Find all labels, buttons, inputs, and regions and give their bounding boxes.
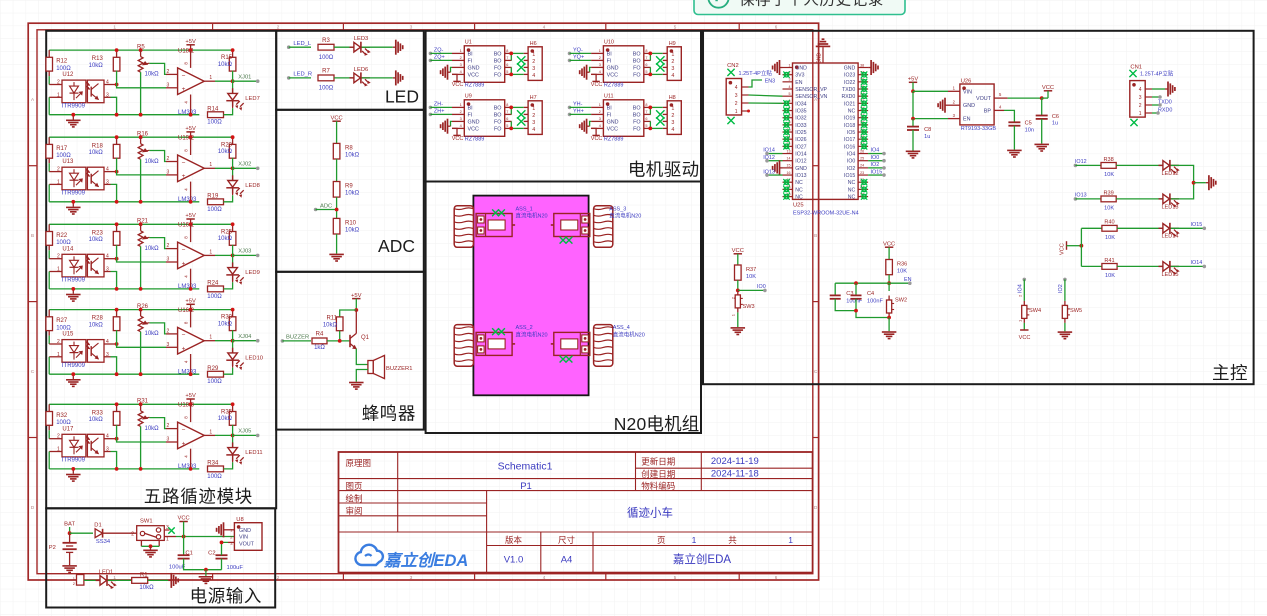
svg-text:IO18: IO18 — [844, 123, 855, 129]
svg-text:LED_L: LED_L — [293, 41, 312, 47]
svg-text:ESP32-WROOM-32UE-N4: ESP32-WROOM-32UE-N4 — [793, 211, 859, 217]
svg-text:C1: C1 — [185, 550, 192, 556]
potentiometer R31 — [139, 402, 143, 406]
svg-text:5: 5 — [506, 124, 508, 128]
wire +5V to U26 VIN — [913, 90, 948, 92]
no-connect X SW1 pin3 — [164, 529, 169, 531]
svg-text:IO22: IO22 — [844, 80, 855, 86]
wire D1 to SW1 — [103, 532, 137, 534]
wire opto pin4 — [104, 84, 117, 86]
module box 电源输入 — [46, 508, 275, 607]
ground U25 top GND net — [822, 38, 825, 40]
svg-text:LED11: LED11 — [245, 450, 262, 456]
svg-text:R41: R41 — [1104, 258, 1114, 264]
svg-text:3: 3 — [532, 66, 535, 72]
capacitor C6 — [1041, 98, 1043, 115]
svg-text:R24: R24 — [207, 281, 219, 287]
svg-text:R10: R10 — [345, 220, 357, 226]
svg-text:−: − — [182, 427, 186, 434]
svg-text:蜂鸣器: 蜂鸣器 — [362, 404, 416, 424]
module box LED — [276, 31, 424, 110]
wire CN2 pin3 to U25 SENSOR_VP — [749, 95, 783, 96]
svg-text:IO4: IO4 — [847, 152, 855, 158]
svg-text:6: 6 — [775, 575, 778, 580]
transistor Q1 — [349, 335, 351, 347]
svg-text:NC: NC — [795, 180, 803, 186]
resistor R17 — [48, 137, 50, 144]
svg-text:R9: R9 — [345, 184, 353, 190]
svg-text:2: 2 — [167, 156, 170, 162]
svg-text:直流电机N20: 直流电机N20 — [609, 212, 641, 220]
svg-text:IO14: IO14 — [795, 152, 806, 158]
resistor R4 — [312, 338, 327, 344]
svg-text:YQ-: YQ- — [573, 48, 583, 54]
net flags IO4 IO0 IO2 IO15 U25 — [868, 153, 884, 155]
svg-text:7: 7 — [506, 110, 508, 114]
svg-text:3: 3 — [671, 66, 674, 72]
svg-text:NC: NC — [848, 187, 856, 193]
svg-text:8: 8 — [645, 49, 647, 53]
VCC flag U11 — [591, 128, 596, 135]
svg-text:YH-: YH- — [573, 102, 583, 108]
svg-text:SENSOR_VN: SENSOR_VN — [795, 94, 827, 100]
svg-text:GND: GND — [607, 120, 619, 126]
wire opto pin1 — [49, 356, 62, 358]
svg-text:1u: 1u — [924, 134, 930, 140]
svg-text:C5: C5 — [1025, 121, 1032, 127]
svg-text:R17: R17 — [56, 146, 68, 152]
svg-text:R4: R4 — [316, 332, 324, 338]
svg-text:BUZZER: BUZZER — [286, 335, 309, 341]
svg-text:XJ05: XJ05 — [238, 429, 251, 435]
svg-text:FI: FI — [468, 59, 473, 65]
svg-text:R33: R33 — [92, 410, 104, 416]
svg-text:2: 2 — [460, 110, 462, 114]
svg-text:U9: U9 — [465, 94, 472, 100]
op-amp U18.3 — [166, 428, 178, 430]
wire pot wiper to op-amp inverting input — [149, 63, 166, 74]
no-connect X ASS_2 — [492, 328, 499, 335]
wire pot wiper to op-amp inverting input — [149, 151, 166, 162]
svg-text:ZH-: ZH- — [434, 102, 443, 108]
wire SW5 to ground — [1064, 323, 1066, 331]
resistor R10 — [333, 218, 340, 234]
svg-text:GND: GND — [239, 528, 251, 534]
svg-text:U25: U25 — [793, 203, 804, 209]
svg-text:R25: R25 — [221, 229, 233, 235]
svg-text:FO: FO — [494, 120, 502, 126]
wire U8 VOUT stub — [228, 541, 234, 543]
ground row XJ01 — [72, 115, 74, 120]
svg-text:3: 3 — [460, 63, 462, 67]
wire Q1 collector to +5V — [355, 310, 357, 333]
svg-text:10kΩ: 10kΩ — [218, 149, 233, 155]
svg-text:IO12: IO12 — [763, 155, 775, 161]
ground U25 pin15 GND — [773, 160, 783, 175]
svg-text:7: 7 — [645, 110, 647, 114]
svg-text:RZ7889: RZ7889 — [465, 137, 485, 143]
op-amp power pins — [190, 404, 192, 422]
potentiometer R5 — [139, 48, 143, 52]
wire R10 to ground — [336, 234, 338, 254]
svg-text:U1: U1 — [465, 40, 472, 46]
net flag IO14 — [1171, 265, 1205, 267]
svg-text:6: 6 — [645, 117, 647, 121]
ground C6 — [1034, 144, 1049, 152]
svg-text:1: 1 — [671, 106, 674, 112]
wire R9 to ADC node — [336, 197, 338, 218]
svg-text:IO17: IO17 — [844, 137, 855, 143]
net flag IO2 SW5 — [1063, 278, 1067, 282]
svg-text:ZQ+: ZQ+ — [434, 55, 445, 61]
sheet column ticks top — [212, 23, 214, 30]
svg-text:IO13: IO13 — [763, 169, 775, 175]
svg-text:4: 4 — [735, 85, 738, 91]
wheel ASS_4 — [594, 325, 613, 367]
svg-text:U11: U11 — [604, 94, 614, 100]
svg-text:主控: 主控 — [1212, 363, 1248, 383]
svg-text:6: 6 — [645, 63, 647, 67]
toast notification bar — [694, 0, 905, 15]
svg-text:4: 4 — [460, 70, 462, 74]
svg-text:26: 26 — [860, 149, 864, 153]
op-amp power pins — [190, 137, 192, 155]
svg-text:10kΩ: 10kΩ — [145, 331, 160, 337]
svg-text:C2: C2 — [208, 550, 215, 556]
svg-text:RXD0: RXD0 — [1158, 108, 1172, 114]
svg-text:2: 2 — [671, 113, 674, 119]
svg-text:Schematic1: Schematic1 — [498, 461, 553, 473]
svg-text:VCC: VCC — [591, 82, 603, 88]
svg-text:VCC: VCC — [452, 136, 464, 142]
net flag YH+ — [568, 113, 572, 117]
motor ASS_1 — [476, 214, 512, 237]
svg-text:10kΩ: 10kΩ — [139, 585, 154, 591]
net flag XJ02 — [233, 167, 258, 169]
svg-text:FI: FI — [607, 59, 612, 65]
wires U11 to H8 — [649, 107, 651, 114]
svg-text:电源输入: 电源输入 — [190, 586, 262, 606]
svg-text:R8: R8 — [345, 145, 353, 151]
LED LED15 — [1159, 265, 1163, 267]
svg-text:U12: U12 — [62, 72, 74, 78]
svg-text:ITR9909: ITR9909 — [62, 363, 86, 369]
svg-text:LED8: LED8 — [245, 183, 260, 189]
svg-text:NC: NC — [795, 195, 803, 201]
op-amp output wire — [204, 80, 215, 82]
resistor R19 — [208, 199, 224, 205]
svg-text:3: 3 — [167, 169, 170, 175]
wire opto pin2 — [49, 258, 62, 260]
resistor R7 — [318, 75, 334, 81]
svg-text:版本: 版本 — [505, 535, 523, 545]
no-connect X ASS_3 — [560, 237, 567, 244]
net flag YQ+ — [568, 59, 572, 63]
svg-text:IO2: IO2 — [1058, 284, 1064, 293]
svg-text:GND: GND — [795, 66, 807, 72]
svg-text:嘉立创EDA: 嘉立创EDA — [673, 552, 731, 566]
svg-text:23: 23 — [860, 171, 864, 175]
net flag LED_R — [287, 76, 291, 80]
title block outer frame — [339, 452, 813, 573]
svg-text:1: 1 — [599, 103, 601, 107]
svg-text:10K: 10K — [1104, 206, 1114, 212]
svg-text:V1.0: V1.0 — [504, 555, 524, 566]
svg-text:XJ01: XJ01 — [238, 74, 251, 80]
svg-text:10kΩ: 10kΩ — [323, 323, 338, 329]
svg-text:2: 2 — [167, 328, 170, 334]
ground C8 — [906, 151, 921, 159]
svg-text:1: 1 — [460, 103, 462, 107]
svg-text:P2: P2 — [49, 545, 56, 551]
svg-text:电机驱动: 电机驱动 — [628, 160, 700, 180]
svg-text:10kΩ: 10kΩ — [345, 227, 360, 233]
svg-text:C4: C4 — [867, 291, 874, 297]
svg-text:ASS_4: ASS_4 — [613, 325, 630, 331]
svg-text:−: − — [182, 332, 186, 339]
ground LED12 LED13 — [1206, 175, 1216, 190]
svg-text:IO12: IO12 — [795, 159, 806, 165]
svg-text:LED12: LED12 — [1161, 171, 1178, 177]
svg-text:IO19: IO19 — [844, 116, 855, 122]
svg-text:SW1: SW1 — [140, 519, 153, 525]
svg-text:IO14: IO14 — [763, 148, 775, 154]
wire LED12 LED13 to ground — [1171, 165, 1194, 199]
car body plate — [473, 196, 588, 396]
net flag ZQ+ — [429, 59, 433, 63]
wire SW3 to ground — [737, 312, 739, 327]
svg-text:创建日期: 创建日期 — [641, 469, 675, 479]
no-connect X H9 pins — [656, 56, 664, 64]
svg-text:XJ03: XJ03 — [238, 249, 251, 255]
svg-text:IO0: IO0 — [847, 159, 855, 165]
wire op-amp plus input — [117, 172, 166, 175]
svg-text:YQ+: YQ+ — [573, 55, 584, 61]
motor ASS_3 — [554, 214, 590, 237]
svg-text:R37: R37 — [746, 267, 756, 273]
svg-text:FI: FI — [468, 113, 473, 119]
wire LED1 to R1 — [108, 579, 132, 581]
wire R36 to EN node — [888, 275, 890, 284]
net flag XJ03 — [233, 254, 258, 256]
svg-text:XJ02: XJ02 — [238, 161, 251, 167]
sheet outer border — [28, 23, 818, 580]
svg-text:U16.2: U16.2 — [178, 308, 195, 314]
op-amp U16.2 — [166, 333, 178, 335]
svg-text:LED9: LED9 — [245, 270, 260, 276]
svg-text:R29: R29 — [207, 366, 219, 372]
svg-text:10kΩ: 10kΩ — [89, 63, 104, 69]
svg-text:25: 25 — [860, 157, 864, 161]
svg-text:10kΩ: 10kΩ — [218, 62, 233, 68]
svg-text:IO27: IO27 — [795, 144, 806, 150]
svg-text:1: 1 — [1139, 111, 1142, 117]
no-connect X U25 left unused pins — [784, 72, 789, 77]
wire pot wiper to op-amp inverting input — [149, 418, 166, 429]
resistor R29 — [208, 371, 224, 377]
svg-text:100Ω: 100Ω — [207, 379, 222, 385]
svg-text:100Ω: 100Ω — [207, 474, 222, 480]
net flag BUZZER — [281, 339, 285, 343]
svg-text:3: 3 — [167, 342, 170, 348]
op-amp power pins — [190, 50, 192, 68]
svg-text:SW4: SW4 — [1029, 308, 1041, 314]
module box 主控 — [703, 31, 1254, 384]
svg-text:2: 2 — [131, 532, 134, 538]
svg-text:BI: BI — [607, 106, 612, 112]
wire opto pin4 — [104, 438, 117, 440]
svg-text:C8: C8 — [924, 127, 931, 133]
wire VCC node to C1 — [183, 537, 185, 556]
svg-text:直流电机N20: 直流电机N20 — [516, 331, 548, 339]
svg-text:直流电机N20: 直流电机N20 — [613, 331, 645, 339]
net flag IO14 U25 — [767, 153, 783, 155]
resistor R11 — [336, 317, 343, 331]
svg-text:1kΩ: 1kΩ — [314, 345, 325, 351]
svg-text:IO13: IO13 — [795, 173, 806, 179]
svg-text:BI: BI — [607, 52, 612, 58]
wire opto pin4 — [104, 171, 117, 173]
wire R1 to ground — [148, 579, 169, 581]
op-amp output wire — [204, 254, 215, 256]
ground C5 — [1007, 150, 1022, 158]
svg-text:IO2: IO2 — [847, 166, 855, 172]
net flag YQ- — [568, 52, 572, 56]
svg-text:10kΩ: 10kΩ — [89, 322, 104, 328]
wire opto pin3 — [104, 271, 111, 273]
wire C2 bottom to ground rail — [221, 559, 223, 570]
svg-text:R26: R26 — [137, 304, 149, 310]
module box 五路循迹模块 — [46, 31, 276, 509]
ground row XJ05 — [72, 469, 74, 474]
svg-text:R31: R31 — [137, 399, 149, 405]
svg-text:4: 4 — [543, 575, 546, 580]
sheet column ticks bottom — [212, 574, 214, 580]
op-amp U18.1 — [166, 73, 178, 75]
svg-text:NC: NC — [848, 180, 856, 186]
svg-text:10kΩ: 10kΩ — [345, 152, 360, 158]
svg-text:1: 1 — [789, 63, 791, 67]
svg-text:IO35: IO35 — [795, 109, 806, 115]
wire R38 to LED12 — [1116, 164, 1163, 166]
svg-text:Q1: Q1 — [361, 335, 370, 341]
svg-text:GND: GND — [963, 103, 975, 109]
wires U10 to H9 — [649, 53, 651, 60]
svg-text:RZ7889: RZ7889 — [465, 83, 485, 89]
sheet row ticks right — [813, 165, 819, 167]
svg-text:−: − — [182, 160, 186, 167]
resistor R38 — [1101, 163, 1116, 169]
wheel ASS_1 — [454, 206, 473, 248]
wire U26 BP to C5 — [994, 109, 1004, 111]
wire LED3 to ground — [362, 46, 393, 48]
svg-text:6: 6 — [506, 63, 508, 67]
svg-text:3: 3 — [532, 120, 535, 126]
VCC flag U10 — [591, 74, 596, 81]
net flag EN — [889, 282, 910, 284]
svg-text:ASS_1: ASS_1 — [516, 206, 533, 212]
svg-text:EN3: EN3 — [765, 79, 776, 85]
wire +5V to U26 EN — [913, 91, 948, 118]
potentiometer R26 — [139, 308, 143, 312]
svg-text:4: 4 — [789, 85, 791, 89]
svg-text:VCC: VCC — [468, 127, 479, 133]
ground row XJ02 — [72, 202, 74, 207]
resistor R33 — [116, 404, 118, 411]
svg-text:7: 7 — [645, 56, 647, 60]
svg-text:EN: EN — [904, 277, 912, 283]
svg-text:10K: 10K — [897, 268, 907, 274]
svg-text:R3: R3 — [322, 38, 330, 44]
svg-text:4: 4 — [671, 73, 674, 79]
svg-text:10n: 10n — [1025, 127, 1034, 133]
svg-text:IO5: IO5 — [847, 130, 855, 136]
sheet row ticks left — [28, 165, 37, 167]
svg-text:LM393: LM393 — [178, 110, 197, 116]
motor ASS_2 — [476, 332, 512, 355]
net flag IO12 U25 — [767, 160, 783, 162]
svg-text:5: 5 — [506, 70, 508, 74]
svg-text:LM393: LM393 — [178, 464, 197, 470]
svg-text:FO: FO — [494, 127, 502, 133]
wire opto pin3 — [104, 96, 111, 98]
svg-text:LED13: LED13 — [1161, 204, 1178, 210]
svg-text:5: 5 — [789, 92, 791, 96]
svg-text:LED10: LED10 — [245, 355, 263, 361]
svg-text:U10: U10 — [604, 40, 614, 46]
svg-text:N20电机组: N20电机组 — [614, 414, 700, 434]
svg-text:NC: NC — [848, 195, 856, 201]
wire R7 to LED6 — [334, 77, 354, 79]
resistor R8 — [333, 143, 340, 159]
svg-text:CN2: CN2 — [727, 63, 739, 69]
wire pot wiper to op-amp inverting input — [149, 238, 166, 249]
wire R3 to LED3 — [334, 46, 354, 48]
svg-text:GND: GND — [607, 66, 619, 72]
svg-text:GND: GND — [844, 66, 856, 72]
LED LED7 — [232, 81, 234, 93]
svg-text:2: 2 — [599, 56, 601, 60]
svg-text:1: 1 — [532, 106, 535, 112]
svg-text:图页: 图页 — [346, 481, 363, 491]
svg-text:R7: R7 — [322, 69, 330, 75]
ground row XJ03 — [72, 289, 74, 294]
svg-text:10kΩ: 10kΩ — [89, 150, 104, 156]
svg-text:IO0: IO0 — [871, 155, 880, 161]
wire bottom rail row XJ04 — [49, 373, 199, 375]
svg-text:2: 2 — [532, 113, 535, 119]
resistor R32 — [48, 404, 50, 411]
svg-text:R20: R20 — [221, 142, 233, 148]
svg-text:XJ04: XJ04 — [238, 334, 252, 340]
resistor R23 — [116, 224, 118, 231]
resistor R30 — [232, 310, 234, 317]
wire opto pin3 — [104, 451, 111, 453]
svg-text:更新日期: 更新日期 — [641, 457, 675, 467]
resistor R39 — [1101, 196, 1116, 202]
svg-text:U16.1: U16.1 — [178, 223, 195, 229]
resistor R1 — [132, 578, 148, 584]
wire +5V to R11 — [340, 310, 357, 317]
svg-text:IO0: IO0 — [757, 284, 766, 290]
svg-text:保存于个人历史记录: 保存于个人历史记录 — [739, 0, 884, 9]
svg-text:24: 24 — [860, 164, 864, 168]
capacitor C5 — [1008, 121, 1020, 123]
ground LED3 row — [393, 40, 403, 55]
capacitor C8 — [912, 119, 914, 127]
ground U25 pin1 GND — [773, 60, 783, 75]
resistor R34 — [208, 466, 224, 472]
